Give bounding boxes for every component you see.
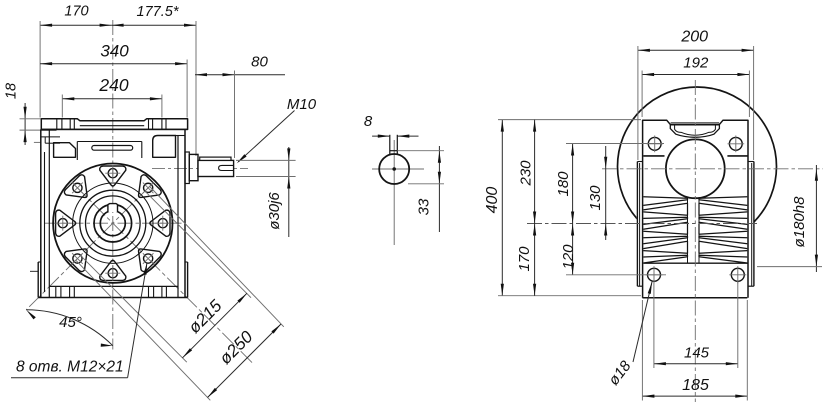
body left inner edge lines xyxy=(44,152,46,292)
side plate right outer xyxy=(753,162,755,287)
input shaft xyxy=(198,160,234,176)
side plate left outer xyxy=(636,162,638,287)
svg-text:180: 180 xyxy=(555,171,572,197)
key top flat xyxy=(390,150,398,152)
centerline diagonal bolt axis upper-left to lower-right xyxy=(75,186,252,363)
left boss block xyxy=(54,143,76,158)
svg-text:170: 170 xyxy=(64,4,88,20)
extension lines of 18 xyxy=(20,118,42,120)
svg-text:192: 192 xyxy=(683,55,709,72)
boss circle outer xyxy=(80,190,146,256)
oil groove slot xyxy=(92,146,133,151)
right view output axis centerline xyxy=(602,168,823,170)
svg-text:400: 400 xyxy=(484,187,501,214)
centerline diagonal bolt axis upper-right to lower-left xyxy=(26,185,151,310)
extension line right of 177.5 xyxy=(195,21,197,156)
cooling fins xyxy=(687,197,689,263)
key sides xyxy=(389,135,391,155)
svg-text:M10: M10 xyxy=(287,96,317,113)
input shaft housing boss xyxy=(185,152,189,184)
dimension 80 horizontal at input shaft xyxy=(195,74,235,76)
extension lines of 33 xyxy=(397,150,444,152)
top hole right xyxy=(729,137,742,150)
dimension 8 key width xyxy=(372,135,390,137)
dimension diameter 180h8 xyxy=(815,165,817,272)
top hole left xyxy=(648,137,661,150)
extension line right of 340 xyxy=(186,60,188,118)
eight bolt hole pads with holes M12 xyxy=(100,166,126,186)
hub circle xyxy=(94,204,132,242)
centerline input shaft axis left view xyxy=(152,167,248,169)
svg-text:ø180h8: ø180h8 xyxy=(791,196,808,248)
svg-text:8 отв. М12×21: 8 отв. М12×21 xyxy=(16,359,124,376)
input shaft collar xyxy=(189,154,198,180)
svg-text:177.5*: 177.5* xyxy=(137,4,180,20)
bottom flange top edge xyxy=(644,262,748,264)
bottom tick lines right xyxy=(148,286,150,297)
centerline vertical axis left view xyxy=(112,20,114,350)
dimension 130 output axis to worm axis xyxy=(605,146,607,240)
dimension 170 horizontal xyxy=(40,24,112,26)
top plate bottom line xyxy=(41,128,187,130)
dimension 177.5* horizontal xyxy=(112,24,196,26)
M10 tapped hole in shaft end xyxy=(219,165,234,170)
body right outer edge xyxy=(184,129,186,297)
dimension 145 bottom holes spacing xyxy=(654,363,738,365)
top plate tick lines right xyxy=(148,119,150,130)
label 8 holes M12x21 with leader xyxy=(11,377,128,379)
svg-text:18: 18 xyxy=(4,83,20,99)
svg-text:80: 80 xyxy=(251,54,268,71)
bottom plate top line xyxy=(49,285,178,287)
body right inner edge xyxy=(177,136,179,298)
top-right corner step line xyxy=(176,135,186,137)
dimension 18 vertical at left xyxy=(24,103,26,145)
dimension 230 top to worm axis xyxy=(534,120,536,296)
svg-text:120: 120 xyxy=(560,244,577,270)
body bottom edge xyxy=(642,297,747,299)
svg-text:240: 240 xyxy=(98,75,128,95)
top plate tick lines left xyxy=(56,119,58,130)
dimension 192 body width xyxy=(642,74,749,76)
svg-text:185: 185 xyxy=(682,377,709,394)
svg-text:340: 340 xyxy=(100,42,129,61)
dimension 180 hole axis to worm axis xyxy=(572,144,574,275)
right view worm axis centerline xyxy=(527,223,757,225)
extension line left of 170 xyxy=(39,21,41,118)
side plate right top cap xyxy=(748,161,754,163)
dimension 33 over key xyxy=(438,146,440,232)
dimension 200 overall width xyxy=(638,49,754,51)
label diameter 18 bottom holes with leader xyxy=(633,282,652,362)
gearbox top plate outline xyxy=(41,119,187,130)
extension lines of 240 xyxy=(61,95,63,118)
side plate left top cap xyxy=(637,161,642,163)
mid face side verticals xyxy=(76,142,78,161)
flange outer circle xyxy=(53,164,172,283)
body left outer edge xyxy=(40,129,42,297)
svg-text:145: 145 xyxy=(684,345,710,362)
extension line small at y142 xyxy=(34,141,41,143)
extension lines of diameter 30j6 xyxy=(236,159,296,161)
bearing cap recess top middle outer contour xyxy=(670,125,719,138)
dimension 340 horizontal xyxy=(40,63,187,65)
svg-text:200: 200 xyxy=(680,29,708,46)
svg-text:130: 130 xyxy=(587,185,604,211)
svg-text:45°: 45° xyxy=(59,314,82,331)
output bore keyway xyxy=(108,204,118,212)
svg-text:ø30j6: ø30j6 xyxy=(266,192,283,230)
side plate bottom steps xyxy=(637,285,642,287)
dimension 185 bottom width xyxy=(642,395,747,397)
housing large circle xyxy=(618,87,777,246)
bottom left corner post xyxy=(37,262,39,298)
dimension 120 worm axis to bottom holes xyxy=(571,224,574,236)
body outline top and sides xyxy=(643,120,748,297)
svg-text:33: 33 xyxy=(416,198,433,215)
output flange circle xyxy=(666,139,725,198)
leader and label M10 tapped hole xyxy=(238,111,294,162)
output bore circle xyxy=(100,211,125,236)
extension bottom holes axis xyxy=(566,274,666,276)
extension line right of 80 at shaft end xyxy=(234,71,236,159)
svg-text:230: 230 xyxy=(518,160,535,187)
shaft section centerline horizontal xyxy=(372,168,424,170)
bottom right corner post xyxy=(187,262,189,298)
dimension 400 overall height xyxy=(501,120,503,296)
seat edge second line xyxy=(671,122,720,124)
top-left corner steps xyxy=(41,129,57,131)
bottom hole right xyxy=(731,268,744,281)
centerline horizontal axis left view flange xyxy=(44,222,182,224)
dimension 240 horizontal xyxy=(62,98,162,100)
dimension 45 degrees arc xyxy=(26,310,113,346)
dimension diameter 250 flange outer xyxy=(150,187,284,327)
dimension diameter 30j6 of input shaft xyxy=(288,147,290,237)
svg-text:8: 8 xyxy=(364,113,373,130)
bearing cap recess inner contour xyxy=(675,125,716,135)
input shaft key on top xyxy=(200,157,231,160)
body bottom edge xyxy=(38,297,187,299)
boss circle inner xyxy=(86,196,141,251)
svg-text:170: 170 xyxy=(516,246,533,272)
extension top holes axis xyxy=(566,143,664,145)
shaft section center dot xyxy=(392,167,396,171)
right boss block rounded xyxy=(153,136,176,158)
mid face line xyxy=(77,141,142,143)
bottom hole left xyxy=(648,268,661,281)
bottom tick lines left xyxy=(55,286,57,297)
ledge lines under top holes xyxy=(643,155,664,157)
dimension 170 worm axis to bottom xyxy=(533,224,536,236)
dimension diameter 215 bolt circle xyxy=(145,191,251,298)
top plate recess inner line xyxy=(80,125,144,127)
shaft section centerline vertical xyxy=(393,140,395,245)
right view vertical centerline xyxy=(694,80,696,402)
shaft section circle xyxy=(379,154,409,184)
body silhouette mask xyxy=(643,120,748,297)
flange face circle xyxy=(73,183,153,263)
